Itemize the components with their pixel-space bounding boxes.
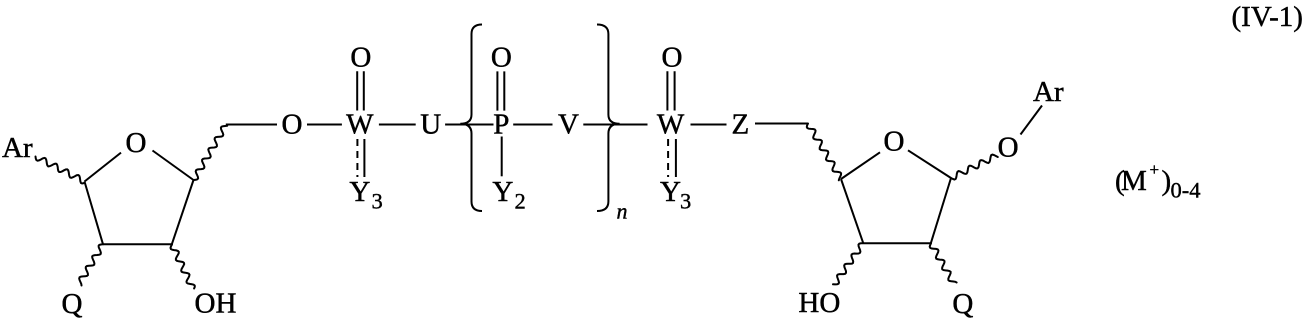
wavy bond ring1 C2' to Q xyxy=(79,244,103,285)
svg-text:U: U xyxy=(420,109,441,141)
bond ring1 C2'-C3' xyxy=(103,243,172,245)
bond W2-Z xyxy=(691,124,727,126)
svg-text:O: O xyxy=(662,42,683,74)
svg-text:O: O xyxy=(350,42,371,74)
repeat bracket right (curly brace) xyxy=(597,25,620,212)
svg-text:V: V xyxy=(558,109,579,141)
wavy bond ring2 C2'' to Q xyxy=(930,243,957,282)
bond ring1 C1'-C2' xyxy=(85,182,104,245)
bond P-Y2 xyxy=(501,137,503,177)
svg-text:O: O xyxy=(491,42,512,74)
svg-text:3: 3 xyxy=(372,188,383,213)
bond ring1 C3'-C4' xyxy=(172,180,194,244)
bond ring2 C2''-C1'' xyxy=(931,178,951,243)
wavy bond ring2 C3'' to HO xyxy=(833,243,863,284)
svg-text:HO: HO xyxy=(798,287,840,319)
bond ring1 C1'-O xyxy=(85,153,122,182)
bond P-V xyxy=(513,124,552,126)
svg-text:n: n xyxy=(617,199,628,224)
partial bond W2-Y3 solid line xyxy=(675,139,677,177)
svg-text:Y: Y xyxy=(492,176,513,208)
svg-text:W: W xyxy=(657,109,685,141)
wavy bond chain to ring2 C4'' xyxy=(807,124,841,181)
partial bond W2-Y3 dashed line xyxy=(667,139,669,177)
bond W1-U xyxy=(379,124,416,126)
repeat bracket left (curly brace) xyxy=(460,25,482,212)
wavy bond ring2 C1'' to O xyxy=(951,155,998,180)
svg-text:M: M xyxy=(1121,165,1147,197)
svg-text:3: 3 xyxy=(680,188,691,213)
svg-text:W: W xyxy=(346,109,374,141)
bond U-P (through left bracket) xyxy=(445,124,493,126)
double bond P=O xyxy=(497,71,504,110)
svg-text:0-4: 0-4 xyxy=(1171,178,1201,203)
svg-text:Ar: Ar xyxy=(1033,76,1064,108)
svg-text:(IV-1): (IV-1) xyxy=(1232,1,1303,33)
partial bond W1-Y3 solid line xyxy=(363,139,365,177)
double bond W2=O xyxy=(667,71,674,110)
bond ring2 C4''-O xyxy=(841,152,880,179)
svg-text:O: O xyxy=(282,109,303,141)
svg-text:OH: OH xyxy=(195,288,237,319)
svg-text:O: O xyxy=(998,132,1019,164)
wavy bond ring1 C4' to C5' chain xyxy=(194,126,227,180)
svg-text:2: 2 xyxy=(515,188,526,213)
bond ring2 C3''-C2'' xyxy=(863,242,931,244)
svg-text:Y: Y xyxy=(660,176,681,208)
bond Z-C5'' xyxy=(755,123,808,125)
wavy bond Ar to ring1 C1' xyxy=(36,157,84,184)
bond V-W2 (through right bracket) xyxy=(583,124,647,126)
svg-text:O: O xyxy=(126,127,147,159)
svg-text:Q: Q xyxy=(62,288,83,319)
partial bond W1-Y3 dashed line xyxy=(356,139,358,177)
svg-text:Ar: Ar xyxy=(2,132,33,164)
svg-text:Q: Q xyxy=(952,288,973,319)
bond O-W1 xyxy=(307,124,342,126)
bond ring2 C4''-C3'' xyxy=(841,179,863,243)
svg-text:O: O xyxy=(884,125,905,157)
bond ring1 O-C4' xyxy=(153,151,194,181)
double bond W1=O xyxy=(357,71,364,110)
bond O-Ar (right) xyxy=(1021,106,1043,135)
svg-text:+: + xyxy=(1150,160,1160,179)
bond ring2 O-C1'' xyxy=(908,150,951,178)
svg-text:Z: Z xyxy=(732,109,750,141)
wavy bond ring1 C3' to OH xyxy=(171,245,195,289)
svg-text:Y: Y xyxy=(349,176,370,208)
bond C5'-O xyxy=(226,124,277,126)
svg-text:P: P xyxy=(493,109,509,141)
